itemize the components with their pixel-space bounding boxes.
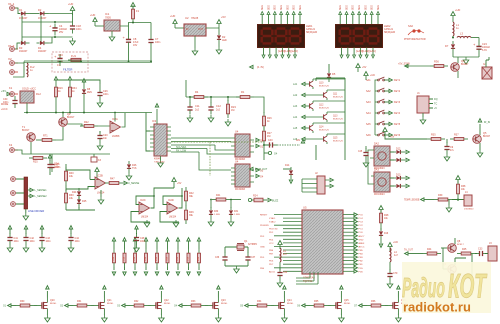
svg-text:D14: D14 (285, 164, 290, 167)
svg-text:RL2: RL2 (36, 92, 41, 96)
svg-text:R64: R64 (257, 300, 262, 303)
svg-text:C16: C16 (58, 53, 63, 57)
svg-text:D2: D2 (38, 8, 42, 12)
connector K1 (9, 86, 18, 96)
capacitor C45 (358, 146, 369, 167)
svg-text:+UD: +UD (68, 2, 73, 6)
svg-text:LM324: LM324 (141, 217, 149, 219)
wire collector rail (316, 78, 345, 160)
power +5V dual (172, 178, 182, 189)
wire opto inputs (368, 150, 374, 184)
capacitor C34 (277, 268, 288, 287)
mcu U5 pins right (343, 213, 365, 273)
svg-text:SA1: SA1 (366, 79, 371, 82)
resistor R46 (185, 205, 195, 224)
svg-text:LA4: LA4 (293, 116, 298, 119)
transistor Q9 (441, 248, 466, 273)
transistor Q14 (293, 123, 345, 133)
ground (23, 213, 29, 220)
svg-text:D24: D24 (72, 191, 77, 194)
wire (15, 43, 20, 49)
svg-text:BC807-25: BC807-25 (333, 96, 344, 98)
svg-text:100n: 100n (155, 41, 161, 44)
svg-text:R62: R62 (134, 300, 139, 303)
resistor R37 (450, 134, 468, 141)
svg-text:PWM_OUT: PWM_OUT (255, 168, 268, 171)
svg-text:TVS: TVS (132, 168, 137, 170)
svg-text:C40: C40 (268, 139, 273, 142)
wire (146, 113, 150, 152)
resistor R41 (212, 194, 241, 201)
display LED1 (3-digit 7-segment) (258, 24, 318, 48)
wire (486, 57, 489, 67)
svg-text:DA2: DA2 (374, 143, 379, 146)
switch S6 (366, 132, 401, 137)
op-amp IC2D (167, 199, 178, 219)
svg-text:IC2C: IC2C (140, 199, 146, 202)
svg-text:U5: U5 (303, 206, 307, 210)
svg-text:2u2: 2u2 (216, 109, 221, 112)
svg-text:1M: 1M (231, 109, 234, 112)
wire IC2A to bus (114, 112, 116, 122)
svg-text:BC807-25: BC807-25 (319, 107, 330, 109)
transistor Q12 (293, 101, 345, 111)
resistor R36 (430, 65, 448, 68)
svg-text:RT1: RT1 (43, 135, 48, 138)
capacitor C36 (215, 253, 228, 267)
svg-text:Q22: Q22 (164, 299, 169, 302)
op-amp IC2B (66, 167, 106, 195)
resistor R22 (80, 121, 98, 128)
power +5V op-amp (95, 168, 99, 179)
filter module FL1 box (52, 52, 88, 72)
resistor RT1 (36, 135, 56, 142)
svg-text:7805: 7805 (105, 16, 111, 20)
svg-text:D5: D5 (332, 72, 336, 76)
svg-text:TEMP_SENSE: TEMP_SENSE (404, 200, 420, 202)
svg-text:Q23: Q23 (221, 299, 226, 302)
capacitor C11 (187, 97, 200, 122)
svg-text:+5V: +5V (362, 66, 367, 69)
svg-text:SA5: SA5 (366, 123, 371, 126)
svg-text:SA3: SA3 (366, 101, 371, 104)
op-amp IC2C (139, 199, 150, 219)
svg-text:LED2: LED2 (384, 24, 391, 28)
svg-text:KEY4: KEY4 (394, 112, 401, 115)
ground (173, 220, 179, 227)
ground (144, 220, 150, 227)
svg-text:FILTER: FILTER (63, 68, 72, 72)
label TEMP net (404, 249, 423, 256)
svg-text:+UD: +UD (393, 241, 398, 244)
resistor R4 (190, 90, 208, 99)
svg-text:LED: LED (222, 39, 227, 42)
power +UD (170, 14, 184, 28)
wire bus (24, 112, 152, 114)
svg-text:LINE DRIVER: LINE DRIVER (28, 209, 44, 213)
connector X1 pin1 (8, 2, 18, 10)
ground (216, 44, 222, 54)
svg-text:SA4: SA4 (366, 112, 371, 115)
svg-text:C12: C12 (216, 104, 221, 108)
ground (225, 266, 248, 273)
switch S3 (366, 99, 401, 104)
power +5V aux1 (356, 64, 367, 73)
svg-text:MOC3023: MOC3023 (374, 194, 385, 196)
mosfet cell Q26 (354, 286, 408, 322)
resistor R40 (65, 164, 75, 185)
svg-text:C41: C41 (14, 237, 19, 240)
wire (452, 198, 464, 201)
transistor Q15 (293, 134, 345, 144)
svg-text:10n: 10n (103, 137, 108, 140)
ic U4A (235, 130, 250, 162)
label +5V (1, 89, 10, 96)
svg-text:AREF: AREF (359, 242, 365, 245)
transistor Q8 (443, 238, 464, 252)
resistor R39 (434, 194, 452, 201)
wire (49, 37, 53, 43)
junction (26, 112, 28, 114)
svg-text:BC807-25: BC807-25 (333, 118, 344, 120)
connector J2 (302, 171, 333, 194)
diode D30 (208, 200, 220, 227)
wire crystal to mcu (237, 243, 244, 247)
svg-text:100n: 100n (75, 241, 81, 243)
svg-text:ZEN: ZEN (87, 91, 92, 94)
svg-text:IC1: IC1 (105, 12, 110, 16)
svg-text:SEG: SEG (353, 5, 355, 10)
display LED2 (3-digit 7-segment) (336, 24, 396, 48)
capacitor C43 (39, 226, 51, 252)
svg-text:LA2: LA2 (293, 94, 298, 97)
wire bundle to U4 (171, 138, 231, 152)
ground (192, 48, 198, 55)
wire (15, 8, 20, 14)
svg-text:LA6: LA6 (293, 138, 298, 141)
mosfet cell Q21 (60, 286, 114, 322)
mcu U5 ATMEGA8 (302, 206, 343, 283)
svg-text:+UD: +UD (170, 14, 175, 18)
diode D2 (37, 8, 49, 20)
watermark background (402, 262, 491, 313)
wire +5V feed (398, 63, 430, 68)
wire dashed net (277, 139, 305, 145)
connector K2 (9, 143, 18, 152)
wire net AREF (186, 80, 250, 97)
capacitor C26 (97, 84, 109, 107)
resistor R35 (427, 134, 445, 141)
capacitor C28 (134, 226, 146, 252)
svg-text:R37: R37 (454, 134, 459, 137)
resistor R25 (29, 157, 47, 164)
svg-text:PHOTODETECTOR: PHOTODETECTOR (404, 38, 426, 41)
svg-text:C45: C45 (358, 151, 363, 153)
svg-text:LM324: LM324 (169, 217, 177, 219)
capacitor C79 (387, 269, 398, 288)
svg-text:D26: D26 (132, 164, 137, 167)
svg-text:BUZZ: BUZZ (272, 200, 279, 203)
svg-text:C28: C28 (140, 237, 145, 240)
transistor T1 (22, 125, 35, 141)
wire dashed bus (171, 142, 264, 176)
svg-text:DA3: DA3 (374, 169, 379, 172)
svg-text:C43: C43 (46, 237, 51, 240)
display LED2 pins top (339, 5, 380, 25)
svg-text:U4: U4 (235, 130, 239, 134)
power +UD (90, 13, 104, 26)
junction (189, 96, 191, 98)
junction (452, 37, 454, 39)
capacitor C20 (97, 131, 108, 150)
resistor R42 (185, 187, 195, 205)
ic U4A pins (231, 138, 254, 154)
svg-text:VCC: VCC (269, 243, 274, 245)
svg-text:CA56-21: CA56-21 (306, 28, 316, 31)
svg-text:DS18B20: DS18B20 (464, 209, 474, 211)
svg-text:MC34063: MC34063 (235, 189, 246, 191)
zener D7 (445, 41, 455, 57)
wire IR amp input (383, 128, 427, 140)
svg-text:BC807-25: BC807-25 (319, 85, 330, 87)
svg-text:IRLML: IRLML (50, 303, 57, 305)
svg-text:R4: R4 (195, 90, 199, 94)
svg-text:IRLML: IRLML (221, 303, 228, 305)
svg-text:IRLML: IRLML (107, 303, 114, 305)
resistor R38 (457, 180, 467, 198)
connector J1 (417, 91, 438, 117)
svg-text:C42: C42 (30, 237, 35, 240)
power +5V (217, 15, 226, 28)
svg-text:R25: R25 (33, 161, 38, 164)
svg-text:R41: R41 (216, 194, 221, 197)
svg-text:SEG: SEG (365, 5, 367, 10)
svg-text:R44: R44 (427, 248, 432, 251)
resistor R51 (122, 238, 126, 276)
svg-text:IRLML: IRLML (287, 303, 294, 305)
svg-text:OUT: OUT (198, 28, 204, 31)
capacitor C18 (70, 22, 82, 34)
varistor K3 (91, 157, 102, 162)
label IC3 value lines (154, 162, 165, 164)
connector J4 thermo (464, 191, 474, 211)
resistor R50 (112, 238, 116, 276)
svg-text:100n: 100n (54, 166, 60, 169)
svg-text:ADC7: ADC7 (359, 235, 366, 238)
svg-text:PD1TXD: PD1TXD (269, 229, 278, 231)
svg-text:[LA6][LA5][LA4]: [LA6][LA5][LA4] (278, 49, 298, 53)
capacitor C33 (475, 248, 487, 257)
diode D26 (126, 161, 137, 180)
ground (158, 156, 164, 167)
wire (206, 28, 219, 32)
svg-text:SEG: SEG (372, 5, 374, 10)
svg-text:SEG: SEG (378, 5, 380, 10)
svg-text:4094N: 4094N (154, 159, 161, 161)
junction (54, 21, 56, 23)
svg-text:100n: 100n (103, 93, 109, 96)
svg-text:R38: R38 (461, 185, 466, 188)
svg-text:SEG: SEG (294, 5, 296, 10)
svg-text:[LA3][LA2][LA1]: [LA3][LA2][LA1] (356, 49, 376, 53)
photodetector SJ1 (404, 24, 426, 41)
svg-text:D16: D16 (384, 233, 389, 235)
mosfet cell Q23 (174, 286, 228, 322)
mcu U5 pins left (260, 215, 302, 274)
svg-text:X1-2: X1-2 (8, 44, 15, 48)
svg-text:BC817: BC817 (67, 116, 75, 119)
svg-text:LA3: LA3 (293, 105, 298, 108)
svg-text:R36: R36 (434, 60, 439, 64)
junction (263, 144, 265, 146)
capacitor C12 (208, 97, 221, 122)
svg-text:C33: C33 (478, 248, 483, 251)
capacitor C21 (49, 160, 61, 172)
svg-text:SEG: SEG (281, 5, 283, 10)
svg-text:C36: C36 (215, 257, 220, 259)
diode D3 (18, 41, 30, 53)
label aux left (250, 65, 265, 69)
resistor R30 (65, 189, 75, 207)
capacitor C37 (245, 253, 256, 267)
svg-text:GOLD +UCC: GOLD +UCC (22, 88, 36, 91)
resistor R34 (68, 77, 77, 113)
connector X1 pin2 (8, 44, 18, 51)
svg-text:Q12: Q12 (319, 105, 324, 107)
capacitor C23 (473, 38, 491, 55)
svg-text:RESET: RESET (260, 215, 268, 217)
resistor R28 (379, 206, 389, 228)
IR LED D5 (327, 64, 336, 82)
svg-text:16V: 16V (133, 44, 138, 47)
op-amp IC2A (110, 117, 121, 138)
svg-text:K2: K2 (9, 143, 13, 147)
crystal Q1 (225, 240, 258, 253)
ic IC3 pins left (150, 127, 154, 151)
transistor Q13 (293, 112, 345, 122)
capacitor C42 (23, 226, 35, 252)
switch S2 (366, 88, 401, 93)
connector X2 pin1 (8, 57, 18, 65)
svg-text:R24: R24 (253, 195, 258, 198)
svg-text:R66: R66 (371, 300, 376, 303)
wire (56, 124, 82, 140)
svg-text:+UD: +UD (370, 74, 375, 77)
svg-text:Q10: Q10 (319, 83, 324, 85)
svg-text:GND: GND (260, 246, 265, 248)
wire IC3 top stub (155, 104, 158, 124)
inductor L1 (453, 20, 459, 36)
wire bundle turns (199, 145, 231, 170)
svg-text:U2: U2 (185, 16, 189, 20)
antenna module G1 (482, 62, 492, 79)
svg-text:LA5: LA5 (293, 127, 298, 130)
optocoupler DA3 (374, 169, 390, 197)
svg-text:SA0: SA0 (408, 24, 413, 28)
power +UD L4 branch (278, 241, 282, 250)
mosfet cell Q20 (3, 286, 57, 322)
svg-text:LM358: LM358 (112, 135, 120, 138)
svg-text:Q15: Q15 (333, 138, 338, 140)
svg-text:100n: 100n (14, 241, 20, 243)
diode D1 (18, 8, 30, 20)
svg-text:XTAL1: XTAL1 (269, 217, 276, 220)
ground (446, 200, 452, 213)
ground (70, 38, 76, 45)
svg-text:radiokot.ru: radiokot.ru (403, 300, 471, 315)
svg-text:ADC6: ADC6 (269, 270, 276, 273)
svg-text:BC817: BC817 (22, 129, 30, 132)
svg-text:+UCC: +UCC (1, 108, 8, 111)
svg-text:AVCC: AVCC (359, 245, 365, 248)
capacitor C30 (3, 96, 18, 108)
mosfet cell Q25 (297, 286, 351, 322)
ic U4B (235, 160, 250, 192)
resistor R47 (105, 178, 140, 186)
resistor R44 (423, 248, 441, 255)
diode D13 (390, 174, 409, 189)
svg-text:100n: 100n (76, 28, 82, 31)
svg-text:KEY2: KEY2 (394, 90, 401, 93)
ic IC3 DIP (152, 119, 167, 161)
inductor L4 (390, 248, 399, 270)
svg-text:74HC4094: 74HC4094 (154, 162, 165, 164)
svg-text:1.5KE: 1.5KE (234, 214, 240, 216)
wire (49, 13, 73, 15)
resistor R58 (197, 238, 201, 276)
svg-text:D31: D31 (234, 211, 239, 213)
resistor R24 (248, 195, 278, 203)
svg-text:IRLML: IRLML (164, 303, 171, 305)
capacitor C9 (444, 139, 454, 161)
svg-text:U4: U4 (235, 160, 239, 164)
svg-text:D7: D7 (445, 44, 449, 48)
wire output (100, 113, 125, 133)
svg-text:Q24: Q24 (287, 299, 292, 302)
svg-text:R35: R35 (431, 134, 436, 137)
svg-text:PD0RXD: PD0RXD (260, 225, 269, 227)
resistor R19 (54, 77, 63, 113)
svg-text:R65: R65 (314, 300, 319, 303)
ground (98, 190, 104, 204)
svg-text:+5V: +5V (221, 15, 226, 19)
svg-text:SEG: SEG (262, 5, 264, 10)
transistor Q5 (473, 119, 491, 157)
terminal out U4A (256, 138, 264, 148)
svg-text:LED1: LED1 (306, 24, 313, 28)
connector X2 pin2 (10, 70, 18, 75)
svg-text:1N4007: 1N4007 (19, 50, 28, 53)
mosfet cell Q22 (117, 286, 171, 322)
ic U4B pins (231, 168, 254, 184)
diode D25 (77, 196, 87, 208)
resistor R1 (236, 90, 254, 99)
svg-text:C34: C34 (283, 272, 288, 274)
svg-text:KEY1: KEY1 (394, 79, 401, 82)
svg-text:IRLML: IRLML (344, 303, 351, 305)
diode D16 (379, 227, 389, 247)
diode D24 (72, 188, 81, 200)
power +UD (68, 2, 75, 15)
ground (420, 117, 426, 124)
svg-text:1N4007: 1N4007 (38, 50, 47, 53)
svg-text:KEY3: KEY3 (394, 101, 401, 104)
svg-text:Q21: Q21 (107, 299, 112, 302)
display LED1 pins top (261, 5, 302, 25)
connector J3 (488, 242, 497, 261)
svg-text:KEY5: KEY5 (394, 123, 401, 126)
svg-text:100n: 100n (30, 241, 36, 243)
